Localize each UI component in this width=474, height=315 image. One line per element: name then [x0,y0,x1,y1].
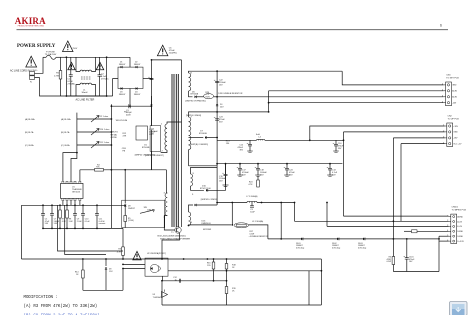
wire [60,57,62,70]
svg-text:DGND: DGND [457,231,463,233]
diode [136,66,138,68]
svg-text:0.5W: 0.5W [387,261,392,263]
wire cap [286,164,288,169]
wire bridge left in [113,79,118,96]
wire DGND pin4 [417,230,449,232]
inductor L1 bottom [80,83,92,84]
wire [99,57,101,75]
wire standby feed drop [280,203,282,239]
blue icon [450,302,468,315]
warning triangle opto [133,251,141,260]
resistor R17 [236,224,246,226]
junction [268,102,270,104]
wire [257,170,259,175]
wire jumper row 3 [77,144,112,146]
svg-text:[W4P020 / FM93]: [W4P020 / FM93] [201,199,218,201]
svg-text:AC LINE FILTER: AC LINE FILTER [76,99,95,102]
wire A+5V to MPEG pin2 [295,220,449,222]
svg-text:TL431AZ: TL431AZ [153,296,162,299]
junction [105,258,107,260]
svg-text:0.1uF: 0.1uF [85,221,91,223]
wire pin4 to Q1 [164,222,175,230]
wire [59,205,61,210]
resistor R16 [212,262,215,269]
wire E+5V to MPEG pin3 [327,225,449,227]
diode D7 [205,136,207,138]
wire C31 [251,203,253,206]
junction [268,111,270,113]
svg-text:BCK-4145-00808 (M400500): BCK-4145-00808 (M400500) [158,236,186,238]
svg-text:(B) IN-7A: (B) IN-7A [61,131,70,134]
wire C16 [335,140,337,144]
resistor R3 [122,247,125,256]
wire [42,215,44,228]
wire [66,205,68,210]
junction [216,137,218,139]
inductor L5 [247,201,257,202]
wire w4 bottom [189,224,232,227]
capacitor C16 [334,144,338,146]
wire -24V feed [217,111,269,113]
wire w2 tap [189,137,204,139]
secondary winding w2 [189,117,191,150]
svg-text:2.2uF: 2.2uF [77,221,83,223]
wire vertical right-mid [150,96,152,126]
junction [161,280,163,282]
wire L1 bot out [92,85,96,97]
junction [151,104,153,106]
svg-text:AC LINE CORD IN: AC LINE CORD IN [10,70,30,73]
wire [74,205,76,213]
wire small loop left [82,259,84,290]
jumper arrow [91,116,99,123]
wire [286,170,288,175]
wire bridge top in [129,57,131,67]
svg-text:TO KEY PCB: TO KEY PCB [446,77,459,79]
junction [74,204,76,206]
ground C19 [223,184,229,186]
op-amp U1 (switchmode IC) [61,183,83,198]
svg-text:400V: 400V [126,115,131,117]
svg-text:MODIFICATION :: MODIFICATION : [24,296,58,300]
capacitor C1 [69,74,73,76]
wire small loop right [122,269,124,291]
wire cap [329,164,331,169]
wire primary left vertical [151,60,153,170]
junction [329,163,331,165]
secondary winding w3 [191,174,193,186]
capacitor C11 [95,213,99,215]
diode [337,238,339,241]
wire [96,215,98,228]
wire [105,269,107,290]
svg-text:275VAC: 275VAC [101,78,109,81]
svg-text:GR 6023: GR 6023 [72,191,81,193]
wire cap [239,164,241,169]
wire [122,255,124,259]
warning triangle F1 [63,41,74,52]
capacitor C13 [328,168,332,170]
diode [301,238,303,241]
wire 5V to R17 row [231,203,233,225]
jumper arrow [91,129,99,136]
capacitor C17 [238,168,242,170]
snubber box [122,200,165,227]
svg-text:E+5V: E+5V [457,226,462,228]
wire opto in top [123,263,145,265]
wire w4 top [189,205,194,212]
junction [76,152,78,154]
junction [111,118,113,120]
header rule [17,29,449,31]
resistor R7 [59,210,62,218]
svg-text:(A) R3 FROM 47K(2W) TO 33K(2W): (A) R3 FROM 47K(2W) TO 33K(2W) [24,304,98,309]
wire long bottom rail [22,258,322,260]
wire U1 rail [80,169,166,171]
diode [363,238,365,241]
svg-text:0.6V drop: 0.6V drop [358,246,366,249]
wire reg loop bottom [162,304,321,306]
wire [60,79,62,96]
wire DGND drop [438,236,440,271]
wire [51,205,53,213]
svg-text:BY500B: BY500B [199,133,207,135]
junction [42,228,44,230]
resistor R19 [225,287,228,294]
wire DGND pin4 left [404,230,412,232]
diode [216,104,218,106]
svg-text:(B) IN-7A: (B) IN-7A [25,131,34,134]
resistor R18 [225,264,228,270]
shunt reg U3 TL431 [162,292,168,298]
junction [286,163,288,165]
wire reg vert 2 [308,271,310,305]
wire jumper left vert [76,113,78,145]
wire [70,76,72,96]
junction [151,59,153,61]
resistor R5 [124,216,127,222]
svg-text:+ FUSIBLE RESISTOR: + FUSIBLE RESISTOR [249,236,269,238]
resistor R8 [66,210,69,218]
jumper arrow SW [140,210,154,214]
wire -24V to CN4 pin4 [269,102,444,104]
capacitor C19 [224,173,228,175]
wire to 5V low rail [216,164,218,205]
capacitor C22 [215,80,219,82]
connector CN501 TO MPEG PCB [451,214,457,243]
svg-text:[W8P02 OR MH4935]: [W8P02 OR MH4935] [135,154,156,156]
svg-text:ACIN: ACIN [452,96,457,99]
svg-text:1N4937: 1N4937 [128,208,136,210]
svg-text:(A) IN-10A: (A) IN-10A [25,118,35,121]
svg-text:R11 1 ohm: R11 1 ohm [100,142,110,144]
ground C16 [333,150,339,152]
svg-text:1N4007: 1N4007 [134,64,141,66]
box C4 [150,126,161,152]
junction [111,144,113,146]
wire down to rail [150,130,152,170]
wire [335,146,337,151]
wire U2 to reg loop [162,276,164,281]
junction [124,169,126,171]
wire bottom rail [66,95,106,97]
svg-text:ACIN: ACIN [452,90,457,93]
svg-text:MCR303: MCR303 [203,229,212,231]
junction [51,228,53,230]
junction [226,258,228,260]
wire R3 top [122,228,124,247]
wire pin1 stub [167,122,182,124]
primary winding upper [165,124,167,150]
wire [42,205,44,213]
wire small loop bottom [83,289,123,291]
wire reg right vert [320,259,322,305]
wire w2 top [189,112,218,117]
wire [225,164,227,175]
w [213,259,215,262]
wire bridge bottom out [129,89,131,107]
svg-text:1N4007: 1N4007 [119,94,126,96]
wire [392,265,394,272]
wire 5V low rail r [257,202,295,204]
svg-text:CN501: CN501 [452,207,459,209]
wire C3 link [111,105,151,107]
wire 18V rail right [265,139,344,141]
wire N to bottom rail [35,78,67,96]
jumper arrow [91,142,99,149]
svg-text:(C) IN-5A: (C) IN-5A [61,144,70,147]
wire pin3 stub [165,170,168,193]
junction [231,202,233,204]
wire [66,218,68,228]
svg-text:L7 3.3UH(A): L7 3.3UH(A) [246,195,257,198]
capacitor C5 [41,213,45,215]
wire to bridge top [107,56,130,58]
wire GND long drop [343,132,345,216]
wire [43,56,46,58]
junction [294,202,296,204]
wire primary pin line [181,60,183,227]
junction [66,95,68,97]
diode [124,205,126,207]
wire reg left vert low [161,281,163,305]
wire +18V to CN2 pin1 [310,126,445,140]
wire primary top rail [152,59,182,61]
svg-text:R2 1 ohm: R2 1 ohm [100,116,109,118]
junction [393,238,395,240]
junction [309,139,311,141]
w [213,269,215,281]
svg-text:(1744): (1744) [128,220,134,222]
junction [161,258,163,260]
svg-text:1u: 1u [175,279,177,281]
wire U1 feedback 2 [71,153,77,182]
wire w2 bottom drop [188,150,190,166]
svg-text:U2 CNX82A(PC817): U2 CNX82A(PC817) [147,252,166,255]
capacitor C6 [150,77,154,79]
svg-text:+18V: +18V [453,126,458,128]
wire left frame vert [21,205,23,259]
junction [111,169,113,171]
capacitor C15 [248,144,252,146]
wire -18V to CN2 pin3 [393,137,444,139]
wire w1 top to rail [189,71,218,73]
wire [124,206,126,215]
capacitor C31 [250,205,254,207]
junction [42,204,44,206]
svg-text:AKIRA: AKIRA [15,16,46,26]
wire D16 out [196,204,217,206]
wire 5V rail [217,163,342,165]
wire GND to CN4 pin1 [342,71,443,85]
wire opto out 2 [65,205,106,254]
svg-text:D+3.3V: D+3.3V [457,241,464,243]
capacitor C7 [50,213,54,215]
wire Z8 top [105,259,107,266]
wire [74,215,76,228]
wire main secondary vertical [216,71,218,164]
L1 core [81,76,91,78]
wire w3 top [191,168,218,175]
junction [261,202,263,204]
wire standby gnd rail [393,271,439,273]
junction [225,163,227,165]
wire cap [257,164,259,169]
junction [59,204,61,206]
wire w1 bottom [189,91,193,97]
svg-text:30mH: 30mH [82,92,88,94]
junction [111,105,113,107]
connector CN4 TO KEY PCB [446,82,452,106]
wire opto in bottom [123,268,145,270]
svg-text:W8 470-10M: W8 470-10M [116,120,128,122]
junction [183,258,185,260]
wire U1 pin drop [74,201,76,206]
junction [216,96,218,98]
wire to D101 rail [249,225,268,239]
capacitor C23 [215,118,219,120]
opto LED [151,267,153,269]
svg-text:A+5V: A+5V [457,220,462,223]
wire D7 out [207,137,217,139]
connector CN2 TO UP PCB [447,123,453,147]
junction [213,280,215,282]
junction [226,270,228,272]
junction [74,228,76,230]
wire GND to CN2 pin2 [344,131,445,133]
ground C15 [247,150,253,152]
svg-text:[W4P30 OR FM4935]: [W4P30 OR FM4935] [186,100,206,102]
wire ACIN drop [268,91,270,112]
warning triangle C6 [157,45,168,56]
wire U1 pin drop [79,201,81,206]
oval R26 fusible [204,94,214,99]
svg-text:OXIDE: OXIDE [111,137,118,139]
junction [82,228,84,230]
wire pin4 stub [164,216,167,223]
wire [225,176,227,185]
svg-text:FMB2003: FMB2003 [202,223,212,225]
svg-text:L3 1.5UH(A): L3 1.5UH(A) [252,220,263,223]
junction [122,258,124,260]
junction [406,238,408,240]
svg-text:CON1 L: CON1 L [30,70,39,72]
svg-text:0.6V drop: 0.6V drop [332,246,340,249]
junction [96,228,98,230]
wire D3.3V pin6 [439,240,449,242]
diode [195,96,197,99]
wire Q1 down [162,233,180,259]
opto transistor [158,266,161,272]
wire w3 bottom [191,186,204,190]
svg-text:1N4007: 1N4007 [134,94,141,96]
svg-text:VCC +5V: VCC +5V [453,143,462,145]
svg-text:4.7M: 4.7M [54,75,59,77]
wire U1 feedback 1 [63,153,77,182]
resistor R4 [95,169,104,172]
junction [122,268,124,270]
box relay/pos reg [136,126,148,140]
junction [151,105,153,107]
diode [195,204,197,206]
svg-text:6: 6 [440,24,442,28]
wire [329,170,331,175]
wire L1 bot in [76,85,80,97]
wire 18V rail left [217,139,256,141]
warning triangle C2 [96,62,104,70]
svg-text:275VAC: 275VAC [68,83,76,86]
wire [196,96,203,98]
junction [213,258,215,260]
junction [257,163,259,165]
capacitor C10 [81,213,85,215]
wire E5V drop [326,203,328,227]
svg-text:1N4007: 1N4007 [119,64,126,66]
warning triangle input [26,56,37,67]
junction [59,228,61,230]
junction [207,258,209,260]
wire [99,76,101,96]
wire GND rail top [217,70,342,72]
junction [151,78,153,80]
wire jumper down [76,145,78,153]
wire L to fuse [35,57,44,73]
junction [82,204,84,206]
resistor R101 [392,257,395,265]
svg-text:T3.15A 250V: T3.15A 250V [45,53,57,56]
svg-text:(C) IN-5A: (C) IN-5A [25,144,34,147]
svg-text:GND: GND [453,132,458,134]
wire standby rail [268,238,439,240]
junction [343,139,345,141]
wire U1 pin drop [70,201,72,206]
connector CON1 [30,72,35,76]
wire U1 pin5 to rail [79,170,81,181]
junction [106,95,108,97]
wire reg loop top [162,280,227,282]
resistor R14 [82,270,85,278]
junction [188,225,190,227]
capacitor C3 [128,104,130,108]
svg-text:4.7K: 4.7K [117,251,122,253]
diode [136,87,138,89]
wire [392,239,394,257]
svg-text:1/W FUSIBLE RESISTOR: 1/W FUSIBLE RESISTOR [218,93,243,95]
junction [438,238,440,240]
wire C101 [406,239,408,258]
wire [257,176,259,180]
svg-text:750V: 750V [205,97,210,99]
